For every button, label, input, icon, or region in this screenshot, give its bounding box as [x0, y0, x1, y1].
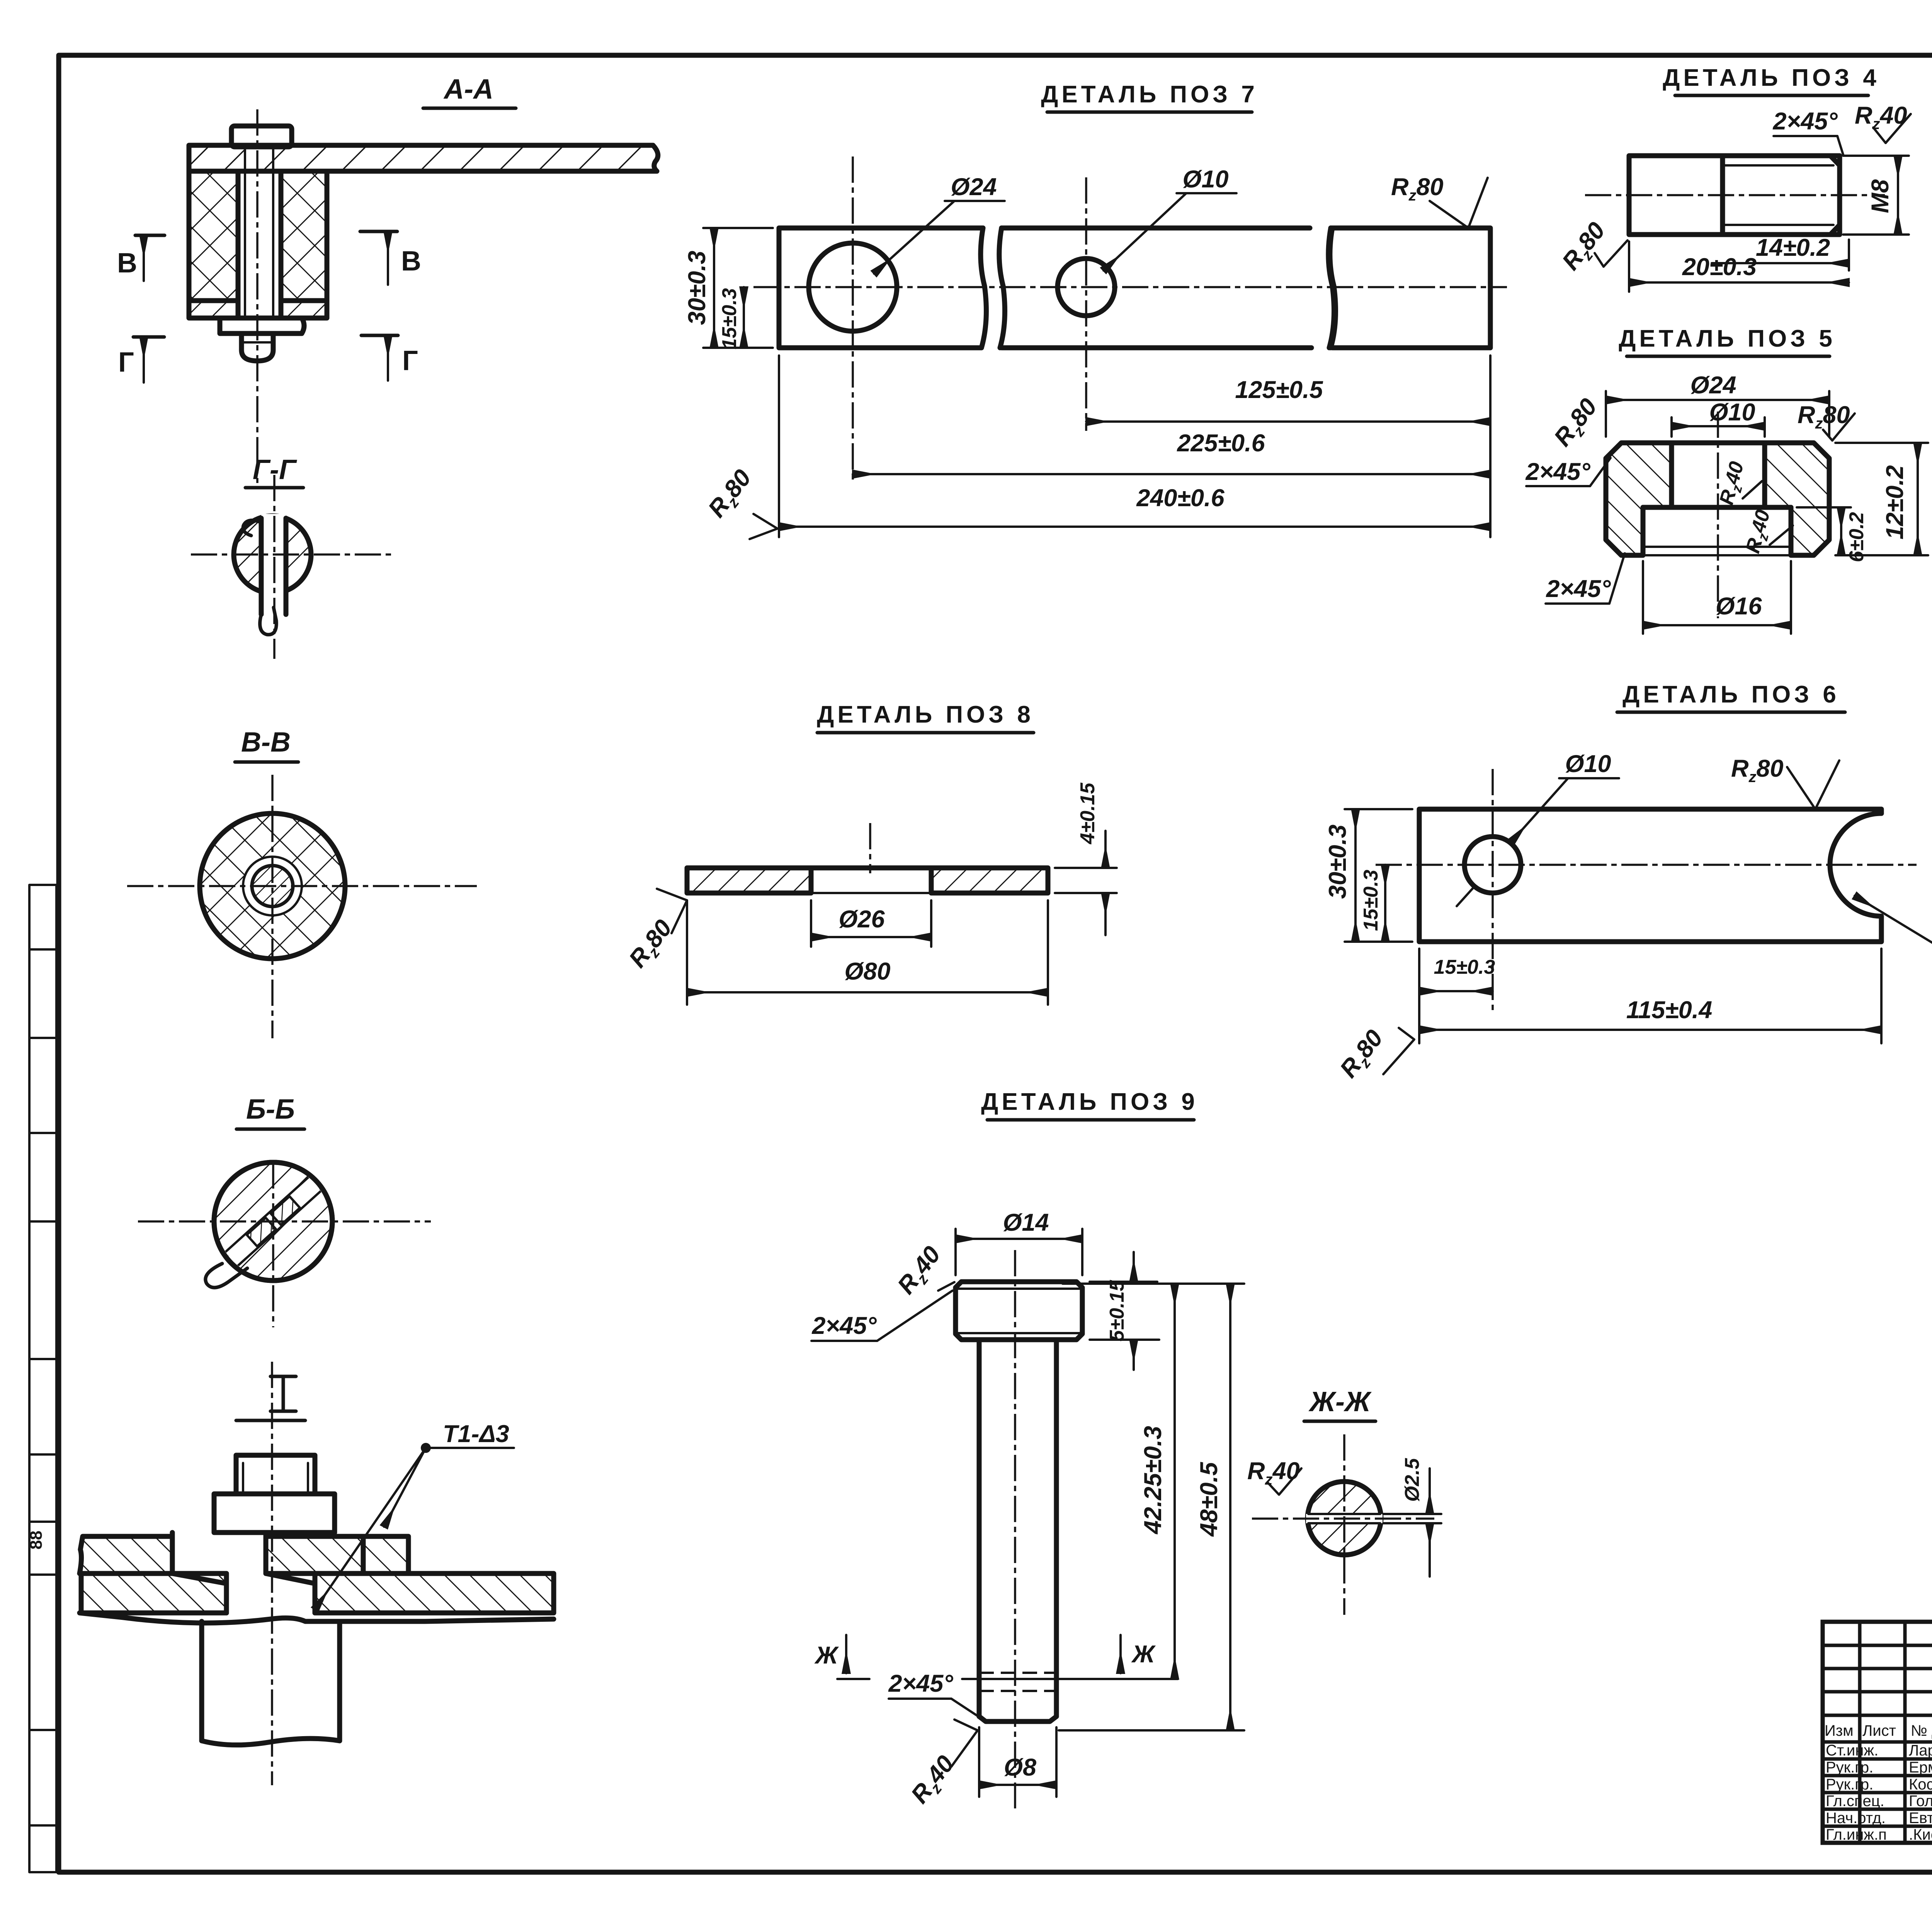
svg-text:ДЕТАЛЬ ПОЗ 6: ДЕТАЛЬ ПОЗ 6: [1622, 681, 1840, 708]
svg-text:Ø14: Ø14: [1003, 1209, 1049, 1236]
svg-text:Евтушенко: Евтушенко: [1909, 1810, 1932, 1827]
roughness Rz80 top of POS7: [1391, 173, 1488, 228]
svg-text:15±0.3: 15±0.3: [1434, 956, 1495, 978]
POS5 roughness Rz40 in recess: [1742, 507, 1793, 556]
dimension M8 POS4: [1843, 156, 1909, 235]
svg-text:Rz80: Rz80: [1731, 755, 1784, 786]
svg-text:М8: М8: [1867, 179, 1894, 213]
svg-text:Ø10: Ø10: [1709, 399, 1755, 426]
POS9 bolt shank: [979, 1340, 1056, 1721]
bolt head top of A-A: [231, 126, 292, 147]
node I: bolt head: [236, 1455, 315, 1494]
washer under assembly: [220, 318, 304, 333]
POS5 roughness Rz40 in bore: [1715, 459, 1762, 508]
V-V centerlines: [127, 885, 477, 887]
node I: bottom plate (hatched): [80, 1573, 554, 1623]
svg-text:Г: Г: [118, 347, 134, 378]
lever bar (hatched) of A-A: [189, 145, 658, 171]
svg-text:В: В: [401, 246, 421, 277]
nut with dome end: [241, 333, 273, 361]
POS6 roughness Rz80 top: [1731, 755, 1839, 809]
svg-text:А-А: А-А: [443, 74, 493, 105]
POS5 dimension d10: [1672, 399, 1765, 437]
POS6 bar with R25 notch: [1419, 809, 1881, 942]
svg-text:88: 88: [27, 1531, 46, 1550]
POS6 dimension 15±0.3 bottom: [1419, 949, 1495, 1043]
stamp signature rows: [1826, 1742, 1932, 1843]
node mark I: [236, 1376, 305, 1420]
svg-text:Б-Б: Б-Б: [246, 1094, 295, 1125]
section mark B right: [360, 231, 421, 285]
svg-text:Ø26: Ø26: [838, 906, 885, 933]
svg-text:240±0.6: 240±0.6: [1136, 485, 1225, 512]
POS8 disc section (hatched): [687, 868, 1048, 893]
title DETAIL POS 6: [1617, 681, 1845, 712]
B-B hatched circle with cotter pin: [206, 1160, 341, 1288]
G-G hatched circle: [234, 514, 311, 634]
POS6 dimension 115±0.4: [1419, 949, 1881, 1043]
left rubber block (cross-hatched): [189, 171, 238, 301]
svg-text:Лист: Лист: [1862, 1722, 1896, 1739]
POS9 bolt head: [956, 1282, 1082, 1340]
svg-text:115±0.4: 115±0.4: [1626, 997, 1713, 1024]
POS9 thread dashed lines: [979, 1673, 1056, 1691]
POS9 dimension 5±0.15: [1090, 1252, 1159, 1370]
svg-text:Рук.гр.: Рук.гр.: [1826, 1776, 1873, 1793]
dimension 240±0.6 POS7: [779, 356, 1490, 537]
POS5 dimension 6±0.2: [1797, 507, 1868, 562]
svg-text:2×45°: 2×45°: [1525, 458, 1590, 485]
dimension 125±0.5 POS7: [1086, 356, 1490, 537]
POS7 centerlines: [753, 286, 1507, 288]
svg-text:ДЕТАЛЬ ПОЗ 8: ДЕТАЛЬ ПОЗ 8: [817, 701, 1034, 728]
POS8 roughness Rz80 left: [624, 889, 687, 975]
node I centerline: [271, 1362, 273, 1785]
svg-text:30±0.3: 30±0.3: [684, 251, 711, 325]
POS9 dimension 42.25±0.3: [1139, 1284, 1175, 1679]
svg-text:14±0.2: 14±0.2: [1756, 234, 1830, 261]
svg-text:В: В: [117, 248, 137, 279]
title DETAIL POS 7: [1041, 81, 1258, 112]
title DETAIL POS 8: [817, 701, 1034, 733]
POS4 centerline: [1585, 194, 1885, 196]
Zh-Zh hatched circle: [1306, 1482, 1383, 1555]
svg-text:Нач.отд.: Нач.отд.: [1826, 1810, 1886, 1827]
POS9 section plane line Zh-Zh: [962, 1678, 1178, 1680]
POS5 label 2x45 lower: [1546, 553, 1625, 604]
svg-text:Ø16: Ø16: [1716, 593, 1762, 620]
svg-text:Ст.инж.: Ст.инж.: [1826, 1742, 1878, 1759]
roughness Rz80 bottom left of POS7: [703, 464, 777, 539]
svg-text:Rz40: Rz40: [1247, 1458, 1300, 1488]
dimension 20±0.3 POS4: [1629, 242, 1849, 292]
node I: pipe below: [202, 1621, 340, 1745]
POS9 section mark Zh right: [1121, 1635, 1156, 1673]
svg-text:Ø80: Ø80: [844, 958, 890, 985]
Zh-Zh dimension d2.5: [1383, 1458, 1441, 1577]
Zh-Zh centerlines: [1252, 1517, 1434, 1520]
title DETAIL POS 5: [1619, 325, 1836, 356]
svg-text:№ докум.: № докум.: [1911, 1722, 1932, 1739]
POS7 hole d10: [1058, 259, 1115, 316]
right rubber block (cross-hatched): [281, 171, 327, 301]
dimension 14±0.2 POS4: [1712, 234, 1849, 270]
POS6 dimension 15±0.3 left: [1360, 865, 1385, 942]
roughness Rz40 POS4: [1855, 102, 1911, 143]
svg-text:2×45°: 2×45°: [888, 1670, 953, 1697]
V-V cross-hatched disc: [200, 813, 345, 959]
svg-text:2×45°: 2×45°: [811, 1312, 877, 1339]
svg-text:12±0.2: 12±0.2: [1881, 465, 1908, 539]
POS8 centerline: [869, 823, 871, 873]
svg-text:Рук.гр.: Рук.гр.: [1826, 1759, 1873, 1776]
G-G centerlines: [191, 553, 395, 556]
svg-text:225±0.6: 225±0.6: [1177, 430, 1265, 457]
POS9 section mark Zh left: [814, 1635, 869, 1679]
svg-text:Ж-Ж: Ж-Ж: [1308, 1386, 1372, 1417]
POS5 dimension d16: [1643, 561, 1791, 634]
svg-text:Косминская: Косминская: [1909, 1776, 1932, 1793]
svg-text:Ермолаев: Ермолаев: [1909, 1759, 1932, 1776]
title DETAIL POS 4: [1663, 65, 1880, 95]
POS8 dimension d26: [811, 900, 931, 947]
POS5 sectioned bushing body: [1606, 443, 1829, 555]
section title Zh-Zh: [1304, 1386, 1376, 1421]
POS6 dimension 30±0.3: [1324, 809, 1412, 942]
vertical centerline of A-A: [256, 109, 259, 483]
svg-text:Ø8: Ø8: [1004, 1754, 1036, 1781]
B-B centerlines: [138, 1220, 431, 1223]
POS9 roughness Rz40 bottom: [906, 1720, 978, 1811]
dimension 30±0.3 POS7: [684, 228, 773, 348]
section title B-B: [236, 1094, 304, 1129]
POS5 roughness Rz80 top right: [1798, 401, 1855, 441]
svg-text:Ø10: Ø10: [1182, 166, 1228, 193]
POS9 roughness Rz40 head: [892, 1241, 954, 1301]
POS8 dimension d80: [687, 900, 1048, 1005]
section mark G right: [361, 335, 418, 381]
label d24 with leader: [874, 173, 1005, 274]
node I: top plate left (hatched): [80, 1536, 172, 1573]
svg-text:4±0.15: 4±0.15: [1077, 782, 1099, 845]
Zh-Zh roughness Rz40: [1247, 1458, 1301, 1495]
svg-text:Ж: Ж: [1131, 1641, 1156, 1668]
POS8 dimension 4±0.15: [1055, 782, 1117, 935]
node I: boss sides: [172, 1533, 315, 1613]
section title V-V: [235, 727, 298, 762]
POS4 stud body: [1629, 156, 1840, 235]
section title G-G: [245, 454, 303, 488]
svg-text:Т1-Δ3: Т1-Δ3: [443, 1420, 509, 1448]
POS6 label R25: [1855, 896, 1932, 974]
svg-text:Гл.спец.: Гл.спец.: [1826, 1793, 1884, 1810]
POS5 label 2x45 upper: [1525, 458, 1611, 486]
POS9 centerline: [1014, 1250, 1016, 1808]
svg-text:ДЕТАЛЬ ПОЗ 4: ДЕТАЛЬ ПОЗ 4: [1663, 65, 1880, 91]
svg-text:В-В: В-В: [241, 727, 291, 758]
POS6 label d10: [1457, 750, 1619, 906]
POS9 label 2x45 bottom: [888, 1670, 978, 1716]
svg-text:ДЕТАЛЬ ПОЗ 5: ДЕТАЛЬ ПОЗ 5: [1619, 325, 1836, 352]
svg-text:30±0.3: 30±0.3: [1324, 825, 1351, 899]
POS5 dimension 12±0.2: [1835, 443, 1928, 555]
bottom plate (hatched) of A-A: [189, 301, 327, 318]
label T1-D3 with leaders: [315, 1420, 514, 1609]
section title A-A: [423, 74, 516, 108]
svg-text:Голец: Голец: [1909, 1793, 1932, 1810]
svg-text:Изм: Изм: [1825, 1722, 1854, 1739]
section mark B left: [117, 235, 165, 281]
dimension 15±0.3 POS7: [718, 287, 744, 349]
roughness Rz80 POS4 left: [1557, 217, 1628, 277]
svg-text:Г: Г: [402, 345, 418, 376]
svg-text:Ø24: Ø24: [951, 173, 997, 201]
POS7 bar with two break lines: [779, 228, 1490, 348]
svg-text:48±0.5: 48±0.5: [1196, 1462, 1223, 1537]
POS9 dimension d14: [956, 1209, 1082, 1275]
svg-text:42.25±0.3: 42.25±0.3: [1139, 1426, 1167, 1535]
POS9 dimension 48±0.5: [1059, 1284, 1244, 1730]
label 2x45 POS4: [1772, 108, 1843, 155]
svg-text:2×45°: 2×45°: [1546, 575, 1611, 602]
svg-text:Ларионов: Ларионов: [1909, 1742, 1932, 1759]
svg-text:2×45°: 2×45°: [1772, 108, 1838, 135]
svg-text:Гл.инж.п: Гл.инж.п: [1826, 1826, 1887, 1843]
POS9 dimension d8: [979, 1727, 1056, 1797]
svg-text:Ø24: Ø24: [1690, 372, 1736, 399]
left margin revision strip: [29, 885, 56, 1872]
section mark G left: [118, 337, 164, 383]
svg-text:20±0.3: 20±0.3: [1682, 253, 1757, 281]
svg-text:Ж: Ж: [814, 1642, 839, 1669]
node I: washer under bolt head: [214, 1494, 335, 1533]
svg-text:ДЕТАЛЬ ПОЗ 9: ДЕТАЛЬ ПОЗ 9: [981, 1089, 1198, 1115]
POS5 centerline: [1717, 412, 1719, 618]
title DETAIL POS 9: [981, 1089, 1198, 1120]
svg-text:125±0.5: 125±0.5: [1235, 376, 1323, 403]
svg-text:Rz80: Rz80: [1391, 173, 1444, 204]
bolt shaft lines: [245, 147, 273, 318]
svg-text:ДЕТАЛЬ ПОЗ 7: ДЕТАЛЬ ПОЗ 7: [1041, 81, 1258, 108]
POS7 hole d24: [809, 243, 897, 331]
svg-text:Ø10: Ø10: [1565, 750, 1611, 777]
POS6 hole d10: [1464, 837, 1521, 893]
svg-text:.Киселева: .Киселева: [1909, 1826, 1932, 1843]
POS6 centerlines: [1376, 864, 1917, 866]
svg-text:Ø2.5: Ø2.5: [1401, 1458, 1423, 1502]
POS9 label 2x45 head: [811, 1291, 952, 1341]
node I: top plate right (hatched): [266, 1536, 408, 1573]
label d10 with leader: [1104, 166, 1236, 270]
POS6 roughness Rz80 bottom left: [1335, 1025, 1414, 1085]
POS5 dimension d24: [1606, 372, 1829, 437]
svg-text:5±0.15: 5±0.15: [1106, 1280, 1128, 1342]
dimension 225±0.6 POS7: [853, 430, 1490, 474]
svg-text:15±0.3: 15±0.3: [718, 288, 741, 350]
svg-text:15±0.3: 15±0.3: [1360, 870, 1382, 931]
